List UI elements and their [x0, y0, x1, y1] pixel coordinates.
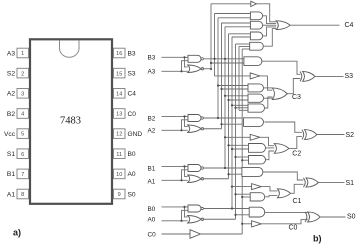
AND gate B1 (C3 term) [248, 84, 264, 92]
NOR gate P0 (B0,A0) [188, 216, 202, 224]
AND gate S3A (sum 3 half) [244, 57, 262, 66]
wire buffer D3 output to OR O2 [260, 137, 274, 145]
pin 16 box [114, 48, 126, 58]
buffer D4 (C1 term) [252, 184, 262, 190]
buffer D3 (C2 term) [250, 134, 260, 140]
wire ~G1 tap to AND A2 input b [225, 26, 250, 28]
wire ~G3 tap to buffer D2 input [215, 75, 251, 77]
AND gate A4 (C4 term) [250, 42, 264, 50]
svg-text:2: 2 [21, 71, 24, 77]
svg-text:S1: S1 [7, 151, 15, 158]
wire NOR1 output riser elbow [203, 178, 229, 180]
wire ~G2 tap to AND B1 input a [218, 85, 248, 87]
svg-text:15: 15 [116, 71, 122, 77]
wire C2 output to XOR X2 [289, 137, 302, 149]
svg-text:B2: B2 [7, 111, 15, 118]
svg-text:C0: C0 [289, 224, 298, 231]
wire ~P1 tap to AND S1A input b [229, 173, 242, 175]
XOR gate X0 (sum S0) [305, 212, 307, 222]
svg-text:11: 11 [116, 152, 122, 158]
NAND gate G2 (B2,A2) [188, 115, 201, 122]
wire B2 branch to NOR2 input [185, 116, 188, 126]
inverter D0 (C0) [190, 230, 201, 239]
wire ~P0 tap to AND A4 input a [236, 43, 250, 45]
wire A0 to NOR0 input [162, 220, 188, 222]
XOR gate X2 (sum S2) [302, 130, 304, 140]
wire buffer D2 output to OR O3 [260, 76, 272, 90]
svg-text:4: 4 [21, 112, 24, 118]
OR gate O4 (carry C4) [276, 21, 290, 30]
XOR gate X1 (sum S1) [303, 178, 305, 187]
wire A3 branch to NAND3 input [182, 61, 189, 72]
svg-text:C3: C3 [292, 94, 301, 101]
wire S3 output [315, 75, 344, 77]
svg-text:C1: C1 [293, 198, 302, 205]
wire ~G0 tap to AND A3 input b [232, 36, 250, 38]
svg-text:B0: B0 [128, 151, 136, 158]
wire B2 to NAND2 input [162, 115, 189, 117]
svg-text:9: 9 [118, 192, 121, 198]
svg-text:A1: A1 [7, 191, 15, 198]
wire AND B3 output to OR O3 [265, 97, 273, 108]
svg-text:B3: B3 [148, 55, 156, 62]
svg-text:C0: C0 [128, 111, 137, 118]
wire AND A3 output to NOR O4 [263, 27, 277, 36]
wire AND C2g output to OR O2 [266, 151, 275, 160]
pin 12 box [114, 129, 126, 139]
svg-text:S0: S0 [347, 214, 356, 221]
wire B1 to NAND1 input [162, 165, 189, 167]
AND gate B3 (C3 term) [248, 104, 264, 112]
wire NAND3 output to AND S3A input a [204, 58, 244, 60]
wire ~P0 tap to AND E1 input a [236, 193, 251, 195]
IC orientation notch [60, 41, 80, 58]
AND gate F1 (sum 0 half) [249, 207, 265, 217]
wire A2 branch to NAND2 input [182, 120, 189, 131]
wire NOR2 output riser elbow [203, 128, 222, 130]
svg-text:S2: S2 [7, 70, 15, 77]
wire AND A1 output to NOR O4 [263, 16, 277, 24]
pin 2 box [17, 68, 29, 78]
AND gate E1 (C1 term) [250, 193, 264, 201]
pin 9 box [114, 189, 126, 199]
OR gate O2 (carry C2) [274, 144, 289, 154]
wire ~G3 to AND A1 input a [215, 13, 251, 15]
wire net ~G3 vertical (NAND3 output riser) [214, 14, 216, 76]
wire buffer D1 output to NOR O4 [257, 4, 277, 22]
wire A1 to NOR1 input [162, 179, 188, 181]
pin 6 box [17, 149, 29, 159]
wire net ~G1 vertical (NAND1 output riser) [224, 27, 226, 168]
wire AND B1 output to OR O3 [264, 87, 273, 89]
wire B1 branch to NOR1 input [185, 166, 188, 176]
wire ~G0 tap to AND C1 input b [232, 148, 249, 150]
wire net ~P3 vertical (NOR3 output riser) [210, 4, 212, 69]
svg-text:B0: B0 [148, 206, 156, 213]
wire ~P2 tap to AND S2A input b [222, 123, 243, 125]
NOR gate P2 (B2,A2) [188, 125, 202, 133]
svg-text:B3: B3 [128, 50, 136, 57]
svg-text:C0: C0 [148, 232, 157, 239]
svg-text:C4: C4 [345, 22, 354, 29]
svg-text:B1: B1 [148, 165, 156, 172]
wire ~P0 tap to AND C2 input a [236, 156, 249, 158]
wire AND C1g output to OR O2 [266, 147, 275, 149]
wire S1 output [318, 181, 344, 183]
wire S0 output [320, 216, 345, 218]
AND gate S1A (sum 1 half) [242, 167, 263, 176]
OR gate O1 (carry C1) [277, 189, 290, 198]
pin 5 box [17, 129, 29, 139]
pin 8 box [17, 189, 29, 199]
wire aux tap to AND A4 input b [239, 46, 250, 48]
svg-text:7: 7 [21, 172, 24, 178]
svg-text:3: 3 [21, 91, 24, 97]
svg-text:6: 6 [21, 152, 24, 158]
wire A3 to NOR3 input [162, 70, 188, 72]
wire AND A4 output to NOR O4 [263, 29, 276, 47]
wire AND E1 output to OR O1 [265, 196, 278, 197]
svg-text:7483: 7483 [60, 116, 81, 127]
wire net C0 buffered vertical riser [241, 49, 243, 234]
svg-text:A0: A0 [128, 171, 136, 178]
wire S2 output [317, 134, 345, 136]
wire net ~P1 vertical (NOR1 output riser) [228, 34, 230, 179]
wire ~P3 to buffer D1 input [211, 3, 251, 5]
wire A1 branch to NAND1 input [182, 170, 189, 181]
OR gate O3 (carry C3) [272, 88, 287, 100]
AND gate S2A (sum 2 half) [244, 118, 264, 127]
AND gate A2 (C4 term) [250, 21, 262, 29]
wire B3 to NAND3 input [162, 56, 189, 58]
wire B3 branch to NOR3 input [185, 57, 188, 67]
svg-text:b): b) [313, 234, 322, 244]
svg-text:14: 14 [116, 91, 122, 97]
wire ~P0 tap to AND F1 input b [236, 214, 250, 216]
buffer D2 (C3 term) [250, 73, 260, 79]
svg-text:Vcc: Vcc [4, 131, 16, 138]
buffer D5 (C0 to sum 0) [252, 221, 262, 227]
wire net aux vertical (carry feed riser) [238, 47, 240, 111]
wire buffer D4 output to OR O1 [261, 187, 277, 191]
wire inverter D0 output to riser [201, 233, 243, 235]
wire A2 to NOR2 input [162, 129, 188, 131]
wire C1 output to XOR X1 [291, 184, 304, 193]
svg-text:S1: S1 [346, 180, 355, 187]
svg-text:A3: A3 [148, 69, 156, 76]
svg-text:1: 1 [21, 51, 24, 57]
svg-text:A2: A2 [7, 91, 15, 98]
wire ~P0 tap to AND B3 input b [236, 107, 249, 109]
wire B0 to NAND0 input [162, 206, 189, 208]
XOR gate X3 (sum S3) [300, 72, 302, 82]
wire C0 to inverter D0 [162, 233, 191, 235]
pin 15 box [114, 68, 126, 78]
wire net ~G2 vertical (NAND2 output riser) [217, 18, 219, 118]
wire ~G1 tap to buffer D3 input [225, 136, 250, 138]
svg-text:S3: S3 [345, 73, 354, 80]
wire ~G1 tap to AND B2 input a [225, 95, 248, 97]
NOR gate P1 (B1,A1) [188, 175, 202, 183]
wire ~P1 tap to AND C1 input a [229, 144, 249, 146]
wire AND F1 output to XOR X0 [265, 211, 308, 213]
svg-text:A2: A2 [148, 128, 156, 135]
pin 3 box [17, 89, 29, 99]
wire NOR0 output riser elbow [203, 218, 236, 220]
wire AND B2 output to OR O3 [264, 97, 273, 99]
NAND gate G1 (B1,A1) [188, 165, 201, 172]
svg-text:GND: GND [128, 131, 143, 138]
svg-text:8: 8 [21, 192, 24, 198]
svg-text:C2: C2 [292, 151, 301, 158]
wire B0 branch to NOR0 input [185, 207, 188, 217]
wire net ~P2 vertical (NOR2 output riser) [221, 23, 223, 129]
NOR gate P3 (B3,A3) [188, 65, 202, 73]
pin 1 box [17, 48, 29, 58]
svg-text:5: 5 [21, 132, 24, 138]
pin 4 box [17, 109, 29, 119]
wire buffer D5 output to XOR X0 [261, 220, 307, 224]
buffer D1 (C4 term) [251, 1, 257, 6]
wire C3 output to XOR X3 [287, 79, 300, 94]
AND gate A1 (C4 term) [250, 12, 262, 20]
wire net ~P0 vertical (NOR0 output riser) [235, 44, 237, 219]
wire ~P2 tap to AND A2 input a [222, 22, 251, 24]
pin 7 box [17, 169, 29, 179]
svg-text:C4: C4 [128, 91, 137, 98]
pin 10 box [114, 169, 126, 179]
wire net ~G0 vertical (NAND0 output riser) [231, 37, 233, 209]
wire AND A2 output to NOR O4 [263, 24, 277, 26]
pin 14 box [114, 89, 126, 99]
wire AND S3A output to XOR X3 [262, 61, 300, 74]
svg-text:A1: A1 [148, 179, 156, 186]
svg-text:16: 16 [116, 51, 122, 57]
wire ~G0 tap to AND B3 input a [232, 104, 248, 106]
wire AND S2A output to XOR X2 [264, 122, 302, 132]
wire NAND2 output to AND S2A input a [204, 117, 243, 119]
pin 11 box [114, 149, 126, 159]
wire ~G0 tap to buffer D4 input [232, 186, 252, 188]
wire ~P1 tap to AND B2 input b [229, 99, 249, 101]
wire aux tap to AND B3 input c [239, 109, 248, 111]
wire NAND1 output to AND S1A input a [204, 167, 242, 169]
wire NAND0 output to AND F1 input a [204, 208, 249, 210]
svg-text:10: 10 [116, 172, 122, 178]
wire C0 tap to AND A4 input c [242, 48, 250, 50]
wire ~G2 tap to AND A1 input b [218, 17, 250, 19]
wire C4 output [290, 24, 339, 26]
svg-text:S0: S0 [128, 191, 136, 198]
IC U1 7483 package body [30, 39, 112, 204]
NAND gate G3 (B3,A3) [188, 55, 201, 62]
svg-text:B1: B1 [7, 171, 15, 178]
AND gate C1g (C2 term) [249, 144, 266, 153]
wire NOR3 output riser elbow [203, 68, 212, 70]
wire ~P1 tap to AND A3 input a [229, 33, 251, 35]
AND gate A3 (C4 term) [250, 32, 262, 40]
wire C0 tap to AND C2 input b [242, 159, 248, 161]
svg-text:A3: A3 [7, 50, 15, 57]
wire C0 tap to buffer D5 input [242, 223, 251, 225]
pin 13 box [114, 109, 126, 119]
wire ~P2 tap to AND B1 input b [222, 88, 249, 90]
svg-text:A0: A0 [148, 217, 156, 224]
svg-text:B2: B2 [148, 115, 156, 122]
svg-text:12: 12 [116, 132, 122, 138]
svg-text:a): a) [13, 228, 21, 238]
wire C0 tap to AND E1 input b [242, 196, 250, 198]
svg-text:S3: S3 [128, 70, 136, 77]
AND gate C2g (C2 term) [249, 156, 266, 164]
svg-text:S2: S2 [346, 132, 355, 139]
NAND gate G0 (B0,A0) [188, 205, 201, 212]
svg-text:13: 13 [116, 112, 122, 118]
AND gate B2 (C3 term) [248, 94, 263, 102]
wire A0 branch to NAND0 input [182, 210, 189, 221]
wire ~P3 tap to AND S3A input b [211, 62, 244, 64]
wire AND S1A output to XOR X1 [263, 172, 304, 180]
